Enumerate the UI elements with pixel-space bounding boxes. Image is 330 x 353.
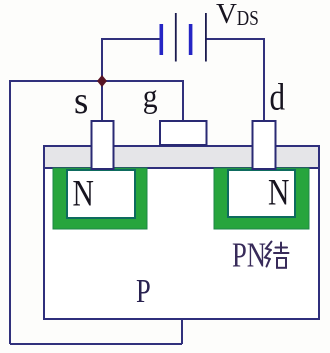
svg-text:N: N [268,172,289,213]
svg-text:P: P [136,272,151,310]
svg-text:s: s [74,81,88,123]
svg-text:N: N [73,173,94,214]
svg-text:d: d [270,76,286,119]
svg-text:V: V [216,0,237,30]
svg-text:PN: PN [232,235,266,274]
svg-text:DS: DS [237,7,259,30]
svg-text:g: g [143,78,158,115]
